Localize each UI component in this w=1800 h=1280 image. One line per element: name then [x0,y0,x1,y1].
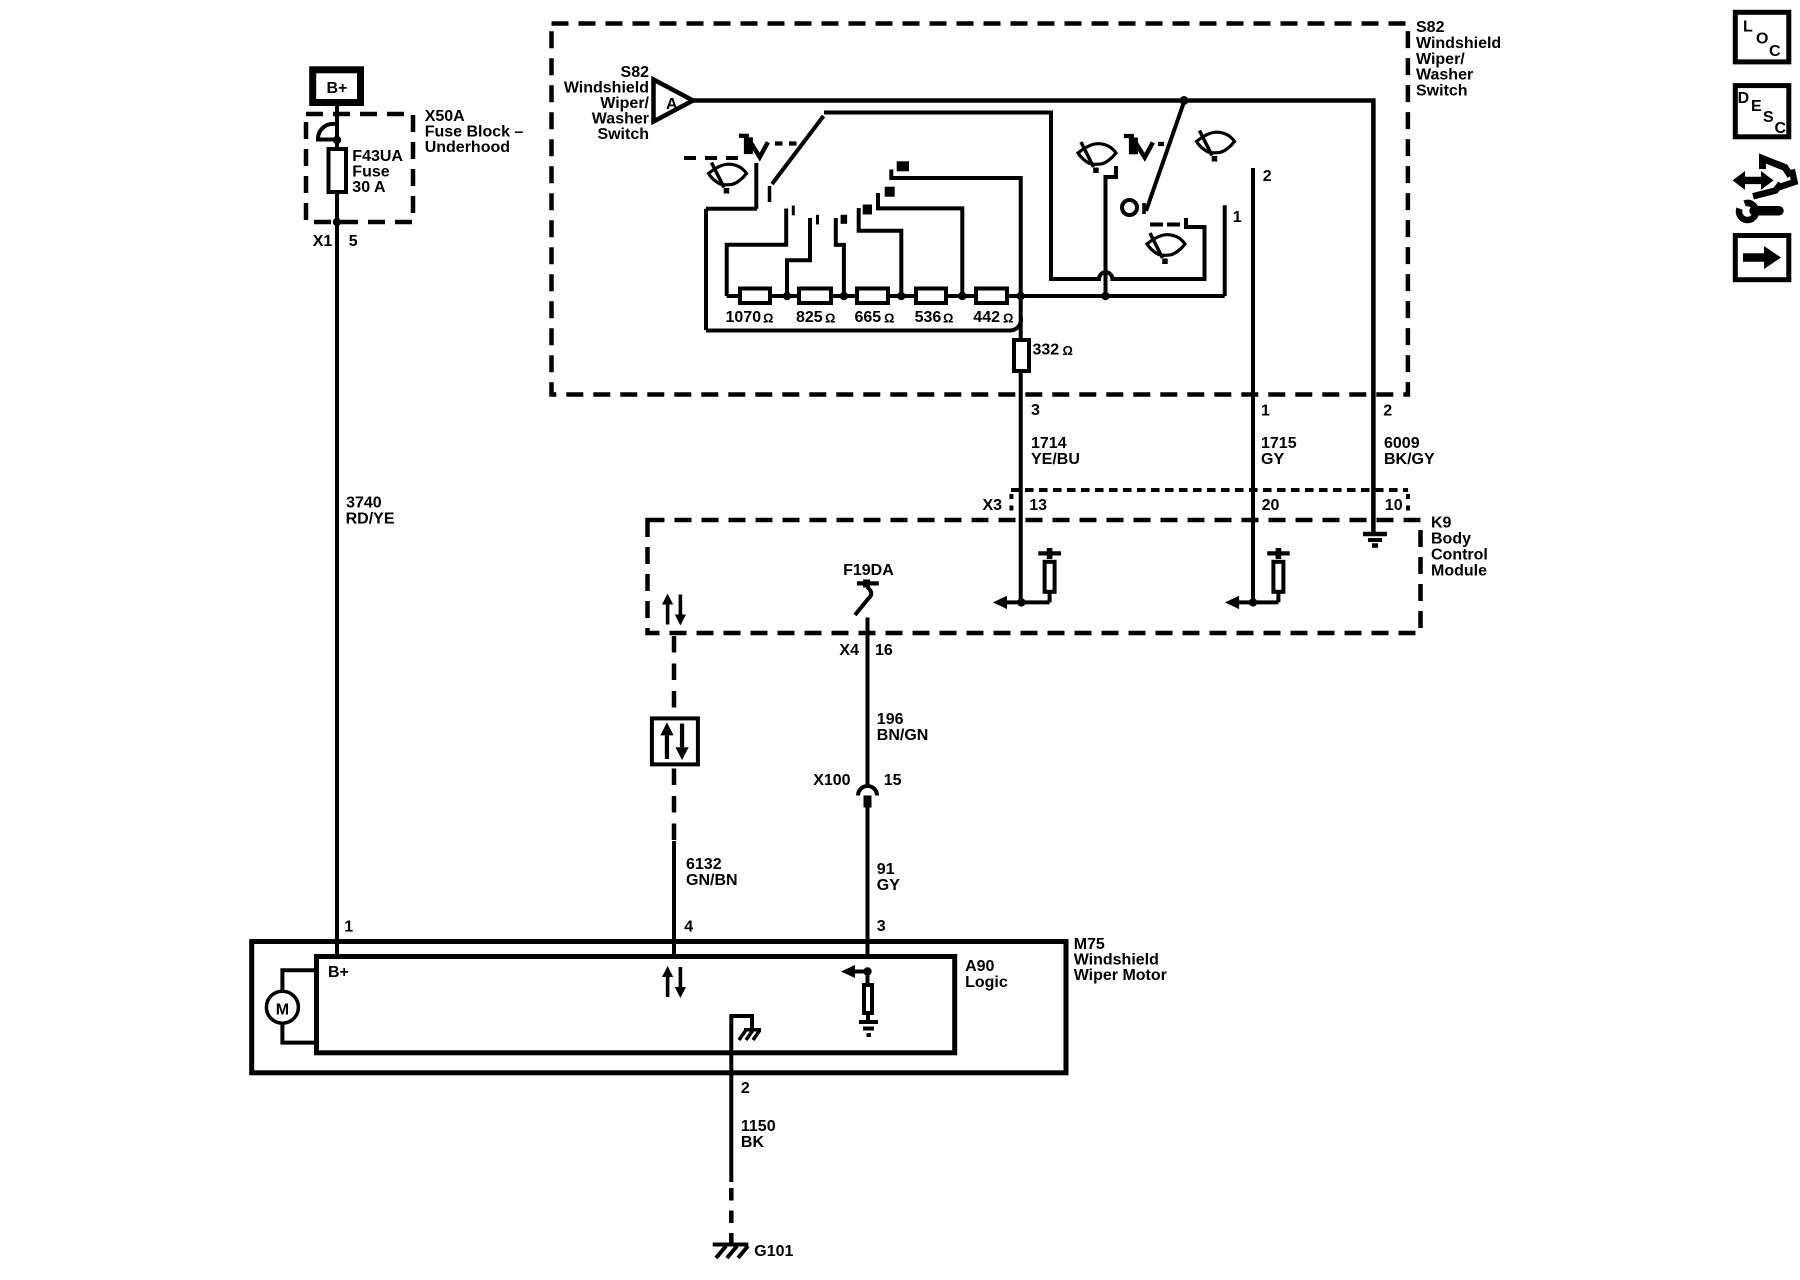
svg-text:6009: 6009 [1384,435,1420,452]
svg-text:3: 3 [877,918,886,935]
svg-text:Washer: Washer [1416,67,1473,84]
svg-text:O: O [1756,30,1768,47]
svg-text:X3: X3 [983,497,1003,514]
svg-text:Wiper Motor: Wiper Motor [1074,967,1167,984]
svg-text:GY: GY [1261,451,1284,468]
svg-text:Underhood: Underhood [425,139,510,156]
svg-text:B+: B+ [327,80,348,97]
svg-text:Body: Body [1431,531,1471,548]
svg-text:825: 825 [796,309,823,326]
svg-text:1070: 1070 [726,309,762,326]
svg-text:M75: M75 [1074,936,1105,953]
svg-text:Wiper/: Wiper/ [1416,51,1465,68]
svg-text:RD/YE: RD/YE [346,511,395,528]
svg-text:B+: B+ [328,964,349,981]
svg-text:1150: 1150 [741,1118,776,1135]
svg-text:Module: Module [1431,563,1487,580]
svg-text:5: 5 [349,233,358,250]
svg-text:Switch: Switch [597,126,649,143]
svg-text:Control: Control [1431,547,1488,564]
svg-text:Ω: Ω [825,311,835,326]
svg-text:Ω: Ω [1003,311,1013,326]
svg-text:Ω: Ω [763,311,773,326]
svg-text:Fuse Block –: Fuse Block – [425,124,524,141]
svg-text:GY: GY [877,877,900,894]
svg-text:442: 442 [973,309,1000,326]
svg-text:30 A: 30 A [352,179,386,196]
svg-text:YE/BU: YE/BU [1031,451,1080,468]
svg-text:15: 15 [884,772,902,789]
svg-text:S82: S82 [621,64,650,81]
svg-text:C: C [1769,43,1781,60]
svg-text:BN/GN: BN/GN [877,727,929,744]
svg-text:A: A [666,96,678,113]
svg-text:2: 2 [1383,403,1392,420]
svg-text:1715: 1715 [1261,435,1297,452]
svg-text:K9: K9 [1431,515,1452,532]
svg-text:E: E [1751,98,1762,115]
svg-text:16: 16 [875,642,893,659]
svg-text:Windshield: Windshield [564,80,649,97]
svg-text:X50A: X50A [425,108,465,125]
svg-text:2: 2 [741,1080,750,1097]
svg-text:1: 1 [1261,403,1270,420]
svg-text:1: 1 [344,919,353,936]
svg-text:665: 665 [855,309,882,326]
svg-text:Washer: Washer [592,111,649,128]
svg-text:D: D [1738,90,1750,107]
svg-text:G101: G101 [754,1243,793,1260]
svg-text:Ω: Ω [943,311,953,326]
svg-text:Fuse: Fuse [352,164,389,181]
svg-text:20: 20 [1262,497,1280,514]
svg-text:X1: X1 [313,233,333,250]
svg-text:196: 196 [877,711,904,728]
svg-text:L: L [1743,19,1753,36]
svg-text:Switch: Switch [1416,83,1468,100]
svg-text:1714: 1714 [1031,435,1067,452]
svg-text:BK/GY: BK/GY [1384,451,1435,468]
svg-text:Ω: Ω [884,311,894,326]
svg-text:4: 4 [684,919,693,936]
svg-text:3: 3 [1031,402,1040,419]
svg-text:2: 2 [1263,168,1272,185]
svg-text:6132: 6132 [686,856,722,873]
svg-text:Windshield: Windshield [1416,35,1501,52]
svg-text:F43UA: F43UA [352,148,403,165]
svg-text:91: 91 [877,861,895,878]
svg-text:3740: 3740 [346,495,382,512]
svg-text:X100: X100 [813,772,850,789]
svg-text:13: 13 [1029,497,1047,514]
svg-text:536: 536 [915,309,942,326]
svg-text:332: 332 [1033,342,1060,359]
svg-text:S: S [1763,109,1774,126]
svg-text:C: C [1775,120,1787,137]
svg-text:M: M [276,1002,289,1019]
svg-text:S82: S82 [1416,19,1445,36]
svg-text:GN/BN: GN/BN [686,872,738,889]
svg-text:1: 1 [1233,209,1242,226]
svg-text:X4: X4 [839,642,859,659]
svg-text:Logic: Logic [965,974,1008,991]
svg-text:10: 10 [1385,497,1403,514]
svg-text:Ω: Ω [1063,343,1073,358]
svg-text:BK: BK [741,1134,765,1151]
svg-text:F19DA: F19DA [843,562,894,579]
svg-text:Wiper/: Wiper/ [600,95,649,112]
svg-text:A90: A90 [965,958,994,975]
svg-text:Windshield: Windshield [1074,952,1159,969]
